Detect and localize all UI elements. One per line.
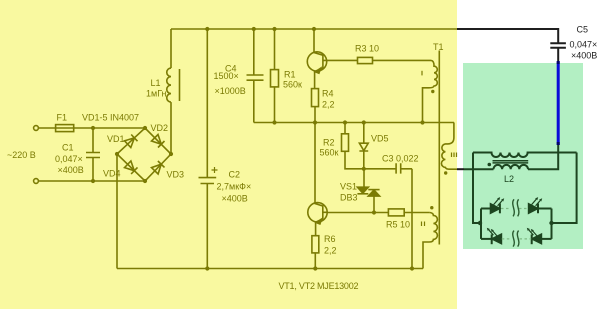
wire: blue down to L2 primary right [528, 145, 558, 169]
wire: bridge plus (right corner) up to L1 [170, 102, 172, 154]
yellow schematic background [0, 0, 457, 309]
svg-text:1мГн: 1мГн [146, 89, 167, 99]
LED HL4 [531, 234, 533, 244]
svg-text:VD4: VD4 [103, 169, 121, 179]
svg-text:2,2: 2,2 [324, 246, 337, 256]
node bottom rail C2 [205, 266, 209, 270]
LED branch left stub [480, 209, 482, 239]
svg-text:VD2: VD2 [151, 123, 169, 133]
L2 primary (bottom) winding [494, 165, 529, 169]
node mid rail R2 [343, 120, 347, 124]
node mid rail VD5 [362, 120, 366, 124]
wire: upper AC input to bridge top corner [39, 127, 146, 129]
svg-text:С1: С1 [62, 143, 74, 153]
inductor L1 [167, 68, 171, 102]
node top rail VT1 collector [312, 27, 316, 31]
dashed wire bottom branch right [520, 238, 532, 240]
svg-text:L1: L1 [151, 78, 161, 88]
capacitor C5 [550, 43, 566, 61]
diode VD2 [152, 135, 162, 145]
svg-text:560к: 560к [283, 80, 302, 90]
LED branch right stub [551, 209, 553, 239]
capacitor C4 [247, 29, 264, 123]
diode VD1 [125, 138, 135, 148]
svg-text:VT1, VT2 MJE13002: VT1, VT2 MJE13002 [279, 281, 359, 291]
svg-text:~220 В: ~220 В [7, 150, 36, 160]
wire: T1-III into green to L2 primary left [464, 168, 494, 170]
node C1 top [91, 126, 95, 130]
wire: C3 return down to bottom rail [411, 169, 413, 269]
LED HL2 [529, 204, 538, 213]
diode VD4 [125, 161, 135, 171]
node diac to VT2 base [372, 210, 376, 214]
dashed wire top branch left [501, 208, 510, 210]
dashed wire bottom branch left [502, 238, 511, 240]
L2 secondary (top) winding with leads [473, 153, 577, 158]
T1 winding III [441, 123, 457, 170]
resistor R6 [312, 236, 319, 253]
T1 winding II phase dot [430, 206, 433, 209]
top rail black part to C5 [457, 29, 558, 43]
resistor R5 [388, 209, 404, 216]
blue wire end caps [557, 61, 560, 145]
diode VD5 [363, 123, 365, 144]
LED HL1 arrows [494, 199, 503, 206]
diode VD3 [152, 164, 162, 174]
node top rail C4 [252, 27, 256, 31]
T1 winding II [423, 213, 437, 269]
svg-text:×400В: ×400В [571, 51, 597, 61]
svg-text:С3 0,022: С3 0,022 [382, 154, 419, 164]
resistor R1 [274, 29, 276, 70]
node LED left [478, 221, 482, 225]
resistor R2 [344, 123, 346, 134]
svg-text:VD5: VD5 [371, 134, 389, 144]
node bottom rail C3 return [410, 266, 414, 270]
node bridge left corner [115, 152, 119, 156]
transistor VT1 [307, 52, 326, 71]
winding mark III [452, 153, 457, 158]
node mid rail R4/VT2 [313, 120, 317, 124]
svg-text:DB3: DB3 [340, 193, 358, 203]
input terminal lower [34, 179, 39, 184]
diac VS1 [363, 169, 365, 187]
svg-text:R2: R2 [323, 138, 335, 148]
svg-text:Т1: Т1 [433, 42, 444, 52]
svg-text:VD1: VD1 [107, 134, 125, 144]
node bridge right corner [169, 152, 173, 156]
resistor R4 [312, 89, 319, 107]
L2 core bars [493, 161, 529, 163]
top rail (olive part) [171, 28, 457, 30]
bridge diamond edges [117, 128, 171, 181]
winding mark I [421, 71, 423, 76]
node bottom rail R6 [313, 266, 317, 270]
blue wire [557, 62, 560, 146]
svg-text:2,7мкФ×: 2,7мкФ× [217, 182, 252, 192]
svg-text:VD3: VD3 [167, 170, 185, 180]
svg-text:0,047×: 0,047× [570, 40, 598, 50]
T1 winding I [423, 60, 438, 122]
T1 core [438, 51, 440, 245]
svg-text:R6: R6 [324, 234, 336, 244]
T1 winding I phase dot [431, 90, 434, 93]
wire: bridge minus (left corner) down to bottom rail [116, 154, 118, 269]
svg-text:0,047×: 0,047× [55, 154, 83, 164]
svg-text:L2: L2 [504, 174, 514, 184]
svg-text:×400В: ×400В [58, 165, 84, 175]
capacitor C3 [364, 163, 412, 173]
svg-text:VD1-5 IN4007: VD1-5 IN4007 [82, 113, 139, 123]
resistor R3 [327, 59, 358, 61]
svg-text:R3 10: R3 10 [355, 44, 379, 54]
fuse F1 [56, 125, 74, 132]
wire: L1 to top rail [170, 29, 172, 68]
T1 winding III phase dot [444, 171, 447, 174]
wire: lower AC input to bridge bottom corner [39, 180, 146, 182]
node bridge top corner [143, 126, 147, 130]
dashed wire top branch right [519, 208, 528, 210]
node mid rail T1-I [420, 120, 424, 124]
node LED right [549, 221, 553, 225]
VT2 base wire [327, 212, 388, 214]
node VD5/R2/C3 junction [362, 167, 366, 171]
node mid rail R1 [272, 120, 276, 124]
capacitor C2 electrolytic [199, 29, 217, 269]
LED HL2 arrows [532, 199, 541, 206]
olive labels [7, 42, 444, 291]
green highlight background [463, 63, 583, 249]
left rail of LED module [473, 153, 480, 224]
svg-text:VS1: VS1 [340, 182, 357, 192]
svg-text:×1000В: ×1000В [215, 86, 246, 96]
C2 plus sign [212, 167, 218, 173]
svg-text:С2: С2 [229, 170, 241, 180]
break squiggle top branch [513, 199, 515, 216]
svg-text:R4: R4 [322, 89, 334, 99]
svg-text:1500×: 1500× [214, 71, 239, 81]
LED HL1 [481, 208, 491, 210]
svg-text:С5: С5 [577, 25, 589, 35]
svg-text:F1: F1 [57, 113, 68, 123]
black wires in white margin [457, 29, 566, 169]
capacitor C1 [86, 128, 100, 181]
node C1 bottom [91, 179, 95, 183]
L1 core bar [179, 69, 181, 101]
winding mark II [422, 222, 425, 227]
svg-text:560к: 560к [320, 148, 339, 158]
break squiggle bottom branch [513, 231, 515, 247]
L2 phase dot [488, 163, 492, 167]
svg-text:R1: R1 [284, 70, 296, 80]
bottom rail [117, 268, 423, 270]
LED HL4 arrows [529, 230, 538, 237]
node top rail R1 [272, 27, 276, 31]
right rail of LED module [552, 153, 577, 224]
svg-text:R5 10: R5 10 [386, 220, 410, 230]
node bridge bottom corner [143, 179, 147, 183]
svg-text:2,2: 2,2 [322, 100, 335, 110]
transistor VT2 [308, 203, 327, 222]
node top rail C2 [205, 27, 209, 31]
svg-text:×400В: ×400В [222, 194, 248, 204]
wire T1-III to lamp (black part) [457, 168, 464, 170]
input terminal upper [34, 126, 39, 131]
LED HL3 [481, 238, 491, 240]
LED HL3 arrows [489, 230, 498, 237]
mid rail (half-bridge node) [254, 122, 454, 124]
